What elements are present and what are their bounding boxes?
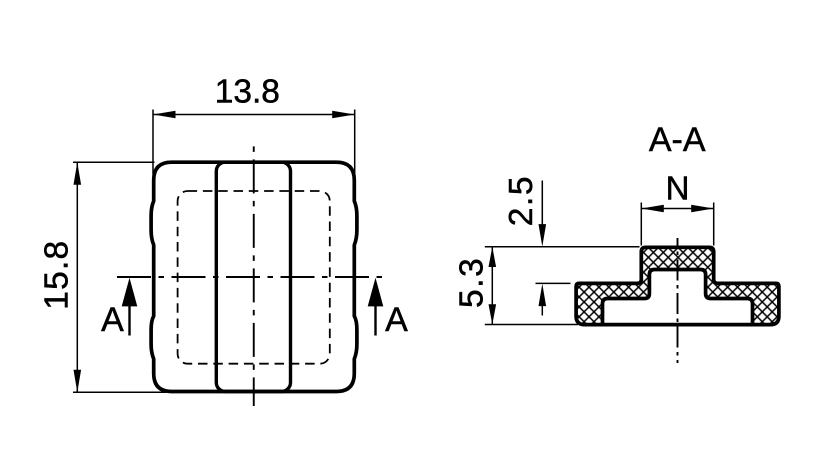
dimension 5.3 extension line bottom	[485, 324, 578, 326]
section cut arrow right (view direction)	[374, 305, 376, 336]
dimension 15.8 extension line top	[73, 161, 155, 163]
dimension 13.8 line	[153, 114, 355, 116]
dimension 13.8 extension line right	[354, 110, 356, 175]
svg-text:2.5: 2.5	[503, 175, 540, 226]
dimension 5.3 arrowhead top	[489, 247, 497, 267]
outer wavy-sided body outline (left view)	[151, 162, 357, 391]
dimension N extension line right	[713, 203, 715, 246]
dimension 15.8 extension line bottom	[73, 391, 166, 393]
centerline vertical (section)	[677, 238, 679, 363]
dimension 15.8 arrowhead bottom	[74, 370, 82, 393]
centerline vertical (left view)	[253, 146, 255, 406]
dimension 5.3 arrowhead bottom	[489, 304, 497, 324]
svg-text:13.8: 13.8	[215, 74, 280, 111]
section cut arrow left (view direction)	[128, 305, 130, 336]
dimension 13.8 extension line left	[152, 110, 154, 175]
dimension N arrowhead left	[641, 205, 664, 213]
dashed hidden-edge rounded rectangle (left view)	[178, 191, 330, 364]
dimension N extension line left	[640, 203, 642, 246]
centerline horizontal / cutting plane A-A (left view)	[117, 276, 384, 278]
dimension N line	[641, 208, 713, 210]
dimension 5.3 extension line top	[485, 246, 640, 248]
svg-text:A: A	[101, 301, 124, 339]
svg-text:N: N	[666, 169, 690, 206]
svg-text:15.8: 15.8	[39, 240, 76, 310]
dimension 13.8 arrowhead right	[332, 111, 355, 119]
dimension 5.3 line	[491, 247, 493, 325]
center rib band (left view)	[216, 162, 290, 391]
dimension N arrowhead right	[691, 205, 714, 213]
svg-text:5.3: 5.3	[454, 257, 491, 308]
svg-text:A: A	[385, 301, 408, 339]
dimension 2.5 extension line (short)	[536, 282, 571, 284]
dimension 2.5 upper arrow with stem	[541, 181, 543, 226]
svg-text:A-A: A-A	[649, 121, 706, 159]
section body hatched fill with hat-profile cavity	[576, 247, 779, 324]
dimension 15.8 arrowhead top	[74, 162, 82, 185]
dimension 2.5 lower arrow with stem	[541, 306, 543, 316]
dimension 13.8 arrowhead left	[153, 111, 176, 119]
dimension 15.8 line	[76, 162, 78, 392]
